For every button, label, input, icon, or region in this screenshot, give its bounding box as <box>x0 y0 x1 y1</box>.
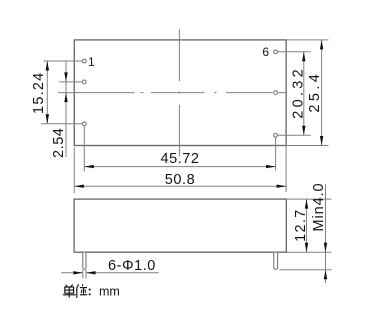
extension line pin2 row <box>59 81 82 83</box>
位 <box>77 284 79 298</box>
vertical centerline <box>178 29 180 156</box>
extension line right bottom pin row <box>278 134 311 136</box>
unit note: 单位：mm <box>63 284 87 298</box>
extension line bottom-left corner down <box>73 148 75 194</box>
dim 25.4 line <box>321 40 323 146</box>
dim 20.32 line <box>303 52 305 136</box>
colon <box>89 289 91 296</box>
dim 50.8 line <box>74 185 286 187</box>
extension line bottom-right corner down <box>285 146 287 193</box>
svg-text:20.32: 20.32 <box>290 66 306 119</box>
left pin (side view) <box>83 253 86 270</box>
dim 15.24 line <box>46 61 48 124</box>
pin 1 <box>82 59 86 63</box>
extension line top edge right <box>286 39 328 41</box>
extension line pin3 row <box>41 123 82 125</box>
svg-text:50.8: 50.8 <box>165 172 195 188</box>
pin 4 <box>274 133 278 137</box>
dim Min4.0 line <box>325 184 327 283</box>
pin 5 <box>274 91 278 95</box>
right pin (side view) <box>274 253 278 270</box>
svg-text:Min4.0: Min4.0 <box>311 183 327 232</box>
extension line pin tip right <box>280 269 332 271</box>
单 <box>66 285 68 287</box>
svg-text:6: 6 <box>262 45 269 59</box>
horizontal centerline <box>58 92 286 94</box>
svg-text:25.4: 25.4 <box>307 71 323 113</box>
extension line side bottom edge right <box>286 251 331 253</box>
svg-text:12.7: 12.7 <box>293 208 309 241</box>
extension line right-bottom pin down <box>275 137 277 170</box>
pin 6 <box>274 50 278 54</box>
svg-text:1: 1 <box>88 55 95 69</box>
svg-text:45.72: 45.72 <box>160 151 199 167</box>
extension line pin6 row <box>278 51 311 53</box>
svg-text:15.24: 15.24 <box>31 72 47 114</box>
dim 2.54 line <box>65 61 67 157</box>
dim 12.7 line <box>306 199 308 252</box>
extension line pin1 row <box>44 60 83 62</box>
package outline (side view) <box>74 199 286 252</box>
svg-text:2.54: 2.54 <box>51 128 67 158</box>
dim 6-phi1.0 leader <box>61 272 83 274</box>
package outline (top view) <box>74 40 286 146</box>
extension line bottom edge right <box>286 145 328 147</box>
svg-text:6-Φ1.0: 6-Φ1.0 <box>108 258 156 274</box>
svg-text:mm: mm <box>99 284 120 298</box>
pin diameter extension lines <box>82 270 84 279</box>
dim 45.72 line <box>84 166 275 168</box>
pin 3 <box>82 122 86 126</box>
extension line pin3 down <box>83 126 85 172</box>
pin 2 <box>82 80 86 84</box>
extension line side top edge right <box>286 198 331 200</box>
